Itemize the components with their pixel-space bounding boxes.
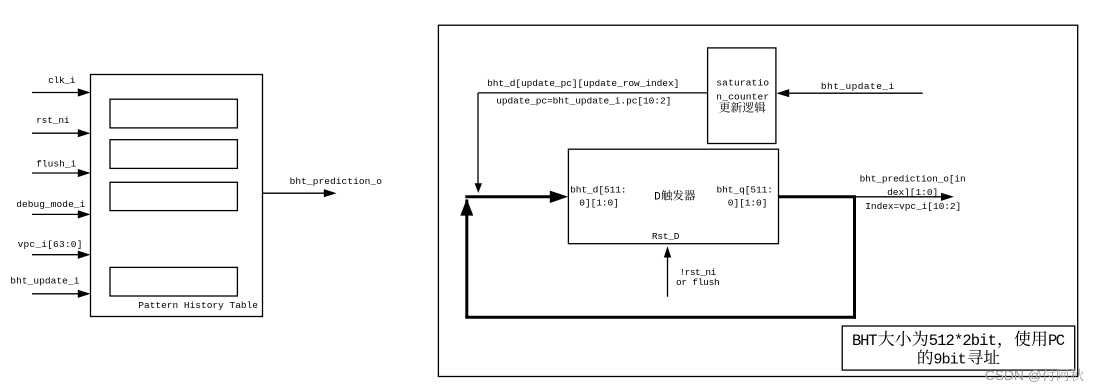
wire: feedback left vertical (thick) [465, 200, 468, 318]
wire: reset into Rst_D [667, 257, 669, 297]
block: saturation_counter update logic [708, 48, 776, 144]
svg-text:9bit: 9bit [933, 350, 966, 368]
wire: D output (thick) [779, 195, 857, 198]
svg-text:PC: PC [1048, 332, 1065, 350]
block: PHT row 2 [110, 140, 237, 169]
svg-text:BHT: BHT [852, 332, 878, 350]
svg-text:CSDN @: CSDN @ [985, 367, 1042, 383]
svg-text:n_counter: n_counter [716, 92, 769, 103]
arrowhead: input rst_ni [78, 129, 91, 137]
svg-text:clk_i: clk_i [48, 75, 75, 86]
svg-text:D: D [654, 192, 661, 204]
block: PHT row 1 [110, 99, 237, 128]
svg-text:vpc_i[63:0]: vpc_i[63:0] [18, 239, 83, 250]
arrowhead: input bht_update_i [78, 290, 91, 298]
svg-text:flush_i: flush_i [36, 158, 76, 169]
block: BHT outer box [438, 25, 1077, 376]
wire: input vpc_i[63:0] [32, 254, 79, 256]
svg-text:bht_q[511:: bht_q[511: [717, 184, 774, 195]
wire: input rst_ni [32, 132, 79, 134]
block: PHT row 3 [110, 182, 237, 210]
block: PHT row 4 [110, 267, 237, 296]
wire: output bht_prediction_o [263, 192, 325, 194]
svg-text:bht_update_i: bht_update_i [821, 81, 895, 92]
svg-text:512*2bit: 512*2bit [929, 332, 997, 350]
svg-text:bht_prediction_o: bht_prediction_o [290, 176, 383, 187]
arrowhead: input clk_i [78, 88, 91, 96]
svg-text:0][1:0]: 0][1:0] [579, 198, 619, 209]
wire: feedback right vertical (thick) [853, 197, 856, 319]
arrowhead: bht_prediction_o output [941, 193, 954, 201]
wire: feedback bottom (thick) [465, 316, 856, 319]
wire: bht_d update wire (horizontal) [478, 92, 708, 94]
arrowhead: D input (thick) [550, 191, 568, 203]
label: annotation line 2 (的9bit寻址) [918, 349, 932, 364]
arrowhead: output bht_prediction_o [324, 189, 337, 197]
svg-text:saturatio: saturatio [716, 78, 769, 89]
svg-text:rst_ni: rst_ni [36, 115, 70, 126]
svg-text:or flush: or flush [676, 277, 720, 288]
wire: input debug_mode_i [32, 213, 79, 215]
wire: input flush_i [32, 172, 79, 174]
svg-text:bht_d[511:: bht_d[511: [570, 184, 627, 195]
arrowhead: riser down into D input wire [475, 183, 482, 193]
wire: D input (thick) [465, 195, 551, 198]
block: D flip-flop [568, 149, 778, 244]
block: Pattern History Table box [91, 75, 263, 317]
arrowhead: bht_update_i into saturation box [776, 89, 789, 97]
wire: bht_d update riser (vertical) [477, 93, 479, 185]
wire: bht_prediction_o output [856, 196, 942, 198]
wire: bht_update_i [789, 92, 923, 94]
wire: input bht_update_i [32, 293, 79, 295]
svg-text:0][1:0]: 0][1:0] [728, 198, 768, 209]
arrowhead: input vpc_i[63:0] [78, 251, 91, 259]
svg-text:Pattern History Table: Pattern History Table [138, 300, 258, 311]
svg-text:dex][1:0]: dex][1:0] [887, 187, 938, 198]
svg-text:bht_d[update_pc][update_row_in: bht_d[update_pc][update_row_index] [487, 78, 679, 89]
wire: input clk_i [32, 92, 79, 94]
svg-text:bht_prediction_o[in: bht_prediction_o[in [860, 174, 966, 185]
svg-text:Rst_D: Rst_D [652, 231, 680, 242]
arrowhead: input flush_i [78, 169, 91, 177]
arrowhead: reset up into D box [664, 246, 671, 257]
svg-text:Index=vpc_i[10:2]: Index=vpc_i[10:2] [865, 201, 961, 212]
svg-text:update_pc=bht_update_i.pc[10:2: update_pc=bht_update_i.pc[10:2] [496, 95, 671, 106]
arrowhead: input debug_mode_i [78, 210, 91, 218]
block: annotation box [842, 326, 1074, 370]
label: 更新逻辑 (update logic) [719, 102, 730, 113]
arrowhead: feedback up [460, 199, 473, 216]
svg-text:debug_mode_i: debug_mode_i [16, 199, 85, 210]
svg-text:bht_update_i: bht_update_i [10, 276, 79, 287]
